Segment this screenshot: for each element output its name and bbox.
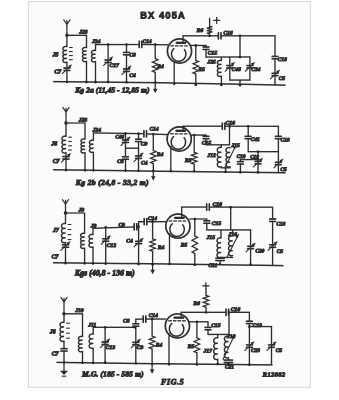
grid wire band3 right bbox=[147, 221, 166, 223]
svg-text:R5: R5 bbox=[180, 242, 188, 248]
junction band2 n3 bbox=[228, 125, 231, 128]
grid wire band3 left bbox=[139, 221, 144, 223]
junction band2 n17 bbox=[257, 158, 260, 161]
trimmer C7 band1 bbox=[54, 65, 71, 75]
svg-text:C15: C15 bbox=[211, 323, 221, 329]
jumper band2 bbox=[126, 147, 139, 149]
svg-text:C7: C7 bbox=[53, 159, 61, 165]
wire C9-C4 band2 bbox=[138, 142, 140, 156]
junction band2 n0 bbox=[124, 132, 127, 135]
wire C9 to rail band4 bbox=[135, 345, 137, 364]
wire C4 to rail band3 bbox=[138, 244, 140, 264]
svg-text:C14: C14 bbox=[150, 126, 159, 132]
junction band1 n2 bbox=[154, 43, 157, 46]
variable capacitor C13 band4 bbox=[101, 339, 116, 351]
wire C8 to rail band2 bbox=[125, 159, 127, 170]
wire C9 column band2 bbox=[138, 134, 140, 139]
junction band2 n15 bbox=[239, 171, 242, 174]
variable capacitor C9 band4 bbox=[131, 339, 143, 351]
wire C8-C4 band1 bbox=[126, 55, 128, 69]
wire C18 to bar band2 bbox=[277, 139, 279, 162]
wire J23 band1 bbox=[67, 34, 87, 36]
arrow below R4 band2 bbox=[151, 171, 156, 181]
svg-text:C46: C46 bbox=[232, 67, 241, 73]
junction band3 n8 bbox=[104, 262, 107, 265]
capacitor C14 band4 bbox=[143, 313, 158, 322]
wire C13 column band4 bbox=[104, 327, 106, 341]
screen wire band3 bbox=[190, 218, 207, 220]
triode U1 band3 bbox=[166, 214, 190, 238]
svg-text:FIG.5: FIG.5 bbox=[160, 378, 184, 387]
arrow J18 band4 bbox=[223, 335, 235, 360]
triode U1 band1 bbox=[167, 39, 191, 63]
svg-text:C21: C21 bbox=[208, 263, 217, 269]
variable capacitor C4 band1 bbox=[122, 66, 136, 79]
antenna band3 bbox=[62, 200, 68, 215]
junction band2 n7 bbox=[84, 169, 87, 172]
grid wire band4 left bbox=[136, 318, 143, 320]
stub C21 band4 bbox=[227, 358, 229, 360]
junction band3 n13 bbox=[219, 263, 222, 266]
svg-text:J23: J23 bbox=[78, 29, 88, 35]
junction band3 n0 bbox=[104, 226, 107, 229]
svg-text:R5: R5 bbox=[197, 67, 205, 73]
junction band2 n14 bbox=[224, 170, 227, 173]
wire C16 to corner band3 bbox=[210, 207, 273, 219]
capacitor C14 band3 bbox=[144, 216, 157, 225]
capacitor C41 band2 bbox=[245, 136, 260, 143]
cathode lead band3 bbox=[169, 234, 171, 264]
svg-text:C5: C5 bbox=[276, 348, 283, 354]
wire C41 top band2 bbox=[247, 126, 249, 136]
svg-text:C4: C4 bbox=[141, 161, 148, 167]
tank busbar band2 bbox=[206, 144, 230, 146]
coil sec band3 bbox=[81, 213, 85, 263]
svg-text:C10: C10 bbox=[237, 154, 246, 160]
junction band4 n1 bbox=[134, 326, 137, 329]
capacitor C16 band3 bbox=[207, 202, 222, 210]
plate wire band2 bbox=[183, 125, 222, 127]
antenna band2 bbox=[63, 108, 69, 125]
svg-text:C24: C24 bbox=[251, 67, 260, 73]
junction band2 n1 bbox=[137, 132, 140, 135]
wire C15 to busbar band2 bbox=[205, 139, 207, 145]
junction band3 n1 bbox=[137, 225, 140, 228]
tank ground stub band1 bbox=[239, 80, 241, 85]
variable capacitor C12 band3 bbox=[101, 236, 116, 249]
wire C46 bottom band1 bbox=[229, 68, 231, 80]
junction band4 n7 bbox=[81, 361, 84, 364]
junction band2 n2 bbox=[152, 133, 155, 136]
plate lead band1 bbox=[182, 36, 184, 41]
svg-text:C9: C9 bbox=[137, 345, 144, 351]
arrowhead J16 band3 bbox=[235, 234, 238, 238]
wire C17 to rail band1 bbox=[107, 63, 109, 82]
junction band2 n5 bbox=[193, 134, 196, 137]
arrow below R4 band4 bbox=[150, 364, 155, 374]
svg-text:R4: R4 bbox=[156, 152, 164, 158]
junction band1 n11 bbox=[125, 81, 128, 84]
coil J6 bbox=[50, 123, 71, 156]
svg-text:C5: C5 bbox=[277, 249, 284, 255]
svg-text:J12: J12 bbox=[206, 153, 216, 159]
svg-text:Kgs (40,8 - 136 m): Kgs (40,8 - 136 m) bbox=[74, 269, 135, 278]
wire C8 up band4 bbox=[135, 319, 137, 323]
tank busbar band1 bbox=[206, 56, 250, 58]
junction band1 n1 bbox=[125, 43, 128, 46]
capacitor C9 band2 bbox=[136, 139, 148, 147]
grid wire band2 left bbox=[93, 132, 143, 135]
jumper C10 C19 band2 bbox=[240, 159, 258, 161]
trimmer C46 band2 bbox=[115, 134, 130, 145]
grid wire band2 right bbox=[147, 133, 167, 136]
svg-text:C18: C18 bbox=[278, 57, 287, 63]
wire C24 top band1 bbox=[249, 57, 251, 65]
coil sec band4 bbox=[78, 314, 82, 363]
coil J15 band2 bbox=[226, 143, 240, 167]
tank coils bottom bar band3 bbox=[221, 256, 233, 258]
triode U1 band4 bbox=[165, 314, 189, 338]
svg-text:R4: R4 bbox=[157, 245, 165, 251]
svg-text:R5: R5 bbox=[184, 158, 192, 164]
junction band1 n5 bbox=[194, 44, 197, 47]
junction band1 n10 bbox=[107, 81, 110, 84]
cathode lead band2 bbox=[170, 147, 172, 171]
wire C20 top band3 bbox=[250, 230, 252, 246]
junction band4 n10 bbox=[134, 362, 137, 365]
tank ground stub band2 bbox=[225, 168, 227, 172]
wire C8-C9 band4 bbox=[135, 327, 137, 342]
svg-text:J17: J17 bbox=[203, 349, 213, 355]
junction band4 n8 bbox=[92, 362, 95, 365]
junction band1 n13 bbox=[173, 82, 176, 85]
svg-text:C18: C18 bbox=[281, 137, 290, 143]
svg-text:BX 405A: BX 405A bbox=[140, 10, 186, 20]
svg-text:C9: C9 bbox=[141, 142, 148, 148]
junction band4 n15 bbox=[227, 363, 230, 366]
wire C12 column band3 bbox=[105, 227, 107, 238]
junction band3 n11 bbox=[168, 263, 171, 266]
coil J9 band3 bbox=[89, 224, 97, 264]
svg-text:C8: C8 bbox=[123, 318, 130, 324]
junction band2 n11 bbox=[152, 170, 155, 173]
junction band1 n15 bbox=[220, 84, 223, 87]
junction band4 n2 bbox=[151, 318, 154, 321]
antenna band1 bbox=[64, 20, 70, 37]
drop wire band1 bbox=[239, 36, 241, 57]
trimmer C17 band1 bbox=[104, 57, 120, 69]
plate lead band2 bbox=[182, 126, 184, 130]
capacitor C16 band2 bbox=[222, 120, 235, 129]
svg-text:C21: C21 bbox=[225, 364, 234, 370]
junction band3 n10 bbox=[151, 263, 154, 266]
svg-text:R6: R6 bbox=[192, 301, 200, 307]
resistor R5 band1 bbox=[193, 45, 205, 84]
capacitor C15 band4 bbox=[205, 323, 221, 330]
variable capacitor C20 band3 bbox=[246, 243, 265, 254]
svg-text:C12: C12 bbox=[107, 243, 117, 249]
junction band2 n13 bbox=[193, 170, 196, 173]
junction band2 n9 bbox=[124, 169, 127, 172]
svg-text:C4: C4 bbox=[129, 73, 136, 79]
wire C5 to rail band2 bbox=[277, 165, 279, 173]
trimmer C21 band3 bbox=[208, 258, 224, 269]
plate wire band4 bbox=[181, 311, 225, 313]
junction band2 n16 bbox=[257, 171, 260, 174]
plate lead band3 bbox=[181, 207, 183, 217]
capacitor C10 band2 bbox=[237, 154, 246, 164]
tank coils bottom bar band2 bbox=[221, 167, 230, 168]
wire tank band4 bbox=[93, 326, 135, 328]
wire C17 column band1 bbox=[107, 45, 109, 60]
wire C13 to rail band4 bbox=[104, 344, 106, 362]
capacitor C8 band1 bbox=[124, 52, 136, 58]
capacitor C8 band2 bbox=[117, 157, 128, 165]
wire C23 to rail band4 bbox=[248, 347, 250, 364]
svg-text:J23: J23 bbox=[78, 117, 88, 123]
capacitor C8 band4 bbox=[123, 318, 139, 326]
svg-text:J25: J25 bbox=[206, 60, 216, 66]
junction band1 n8 bbox=[85, 81, 88, 84]
screen wire band1 bbox=[192, 44, 206, 46]
capacitor C15 band3 bbox=[204, 221, 221, 227]
variable capacitor C24 band1 bbox=[245, 63, 260, 73]
wire C10 to rail band2 bbox=[239, 164, 241, 172]
trimmer C46 band1 bbox=[225, 63, 241, 73]
tank bottom bar band1 bbox=[230, 79, 250, 81]
wire C20 to rail band3 bbox=[250, 249, 252, 265]
junction band4 n5 bbox=[196, 320, 199, 323]
svg-text:J8: J8 bbox=[49, 330, 56, 336]
svg-text:C17: C17 bbox=[110, 63, 120, 69]
svg-text:J16: J16 bbox=[227, 232, 237, 238]
svg-text:R6: R6 bbox=[196, 28, 204, 34]
coil J12 bbox=[206, 145, 221, 167]
wire C15 top band1 bbox=[205, 45, 207, 46]
ground rail band2 bbox=[54, 170, 285, 173]
svg-text:C8: C8 bbox=[117, 159, 124, 165]
ground bar band4 bbox=[62, 375, 66, 377]
wire C4 to rail band1 bbox=[126, 72, 128, 83]
junction band1 n14 bbox=[194, 83, 197, 86]
wire to C9 band3 bbox=[93, 227, 134, 228]
capacitor C18 band4 bbox=[247, 321, 263, 329]
coil J25 bbox=[206, 57, 221, 85]
resistor R5 band4 bbox=[187, 322, 200, 365]
junction band1 n9 bbox=[94, 81, 97, 84]
variable capacitor C5 band3 bbox=[268, 242, 283, 255]
svg-text:C7: C7 bbox=[54, 69, 62, 75]
svg-text:J5: J5 bbox=[52, 53, 59, 59]
coil J16 bbox=[227, 230, 237, 256]
junction band4 n11 bbox=[151, 363, 154, 366]
wire C5 to rail band3 bbox=[272, 247, 274, 265]
wire link band3 bbox=[66, 212, 85, 214]
svg-text:R4: R4 bbox=[156, 64, 164, 70]
svg-text:R5: R5 bbox=[187, 344, 195, 350]
cathode lead band1 bbox=[173, 62, 175, 84]
screen wire band2 bbox=[191, 134, 206, 136]
coil J11 bbox=[87, 323, 96, 363]
junction band2 n8 bbox=[92, 169, 95, 172]
svg-text:C23: C23 bbox=[251, 348, 260, 354]
svg-text:C9: C9 bbox=[119, 223, 126, 229]
capacitor C15 band1 bbox=[203, 47, 217, 56]
capacitor C15 band2 bbox=[202, 136, 212, 146]
rect bottom bar band2 bbox=[248, 151, 278, 153]
wire C15 top band2 bbox=[205, 134, 207, 137]
svg-text:R4: R4 bbox=[155, 342, 163, 348]
coil J8 band4 bbox=[49, 314, 70, 349]
stub C21 band3 bbox=[220, 256, 221, 259]
wire J23 band2 bbox=[66, 122, 85, 124]
resistor R6 band1 bbox=[196, 18, 213, 36]
svg-text:C46: C46 bbox=[115, 134, 124, 140]
junction band4 n13 bbox=[196, 363, 199, 366]
junction band3 n4 bbox=[193, 218, 196, 221]
wire C21 to rail band3 bbox=[219, 261, 221, 265]
wire C7 to rail band2 bbox=[65, 159, 67, 170]
coil J18 bbox=[224, 334, 235, 358]
capacitor C21 band4 bbox=[224, 360, 234, 370]
wire C12 to rail band3 bbox=[105, 241, 107, 263]
capacitor C16 band1 bbox=[218, 30, 233, 39]
junction band1 n3 bbox=[208, 34, 211, 37]
resistor R5 band3 bbox=[180, 219, 198, 265]
arrow below R4 band3 bbox=[150, 264, 155, 274]
capacitor C18 band1 bbox=[272, 56, 287, 63]
wire C41 bottom band2 bbox=[247, 139, 249, 152]
wire J10 band4 bbox=[64, 313, 83, 315]
junction band1 n6 bbox=[239, 56, 242, 59]
wire C7 to rail band1 bbox=[66, 71, 68, 82]
variable capacitor C5 band4 bbox=[267, 342, 282, 354]
svg-text:C7: C7 bbox=[52, 352, 60, 358]
wire C15 top band3 bbox=[206, 219, 208, 220]
grid wire band4 right bbox=[146, 318, 165, 320]
wire C5 to rail band4 bbox=[271, 347, 273, 365]
junction band3 n9 bbox=[137, 263, 140, 266]
grid wire band1 right bbox=[142, 44, 167, 46]
wire C15 to busbar band3 bbox=[206, 223, 208, 230]
resistor R4 band4 bbox=[149, 319, 162, 364]
junction band4 n0 bbox=[104, 326, 107, 329]
junction band3 n2 bbox=[151, 220, 154, 223]
wire C18-C5 band3 bbox=[272, 221, 274, 244]
jumper band4 bbox=[249, 326, 271, 328]
wire J17 bottom band4 bbox=[217, 359, 219, 364]
wire C18-C23 band4 bbox=[248, 324, 250, 345]
svg-text:C18: C18 bbox=[276, 222, 285, 228]
coil J17 bbox=[203, 334, 218, 359]
capacitor C7 band4 bbox=[52, 349, 67, 358]
coil J24 band2 bbox=[89, 127, 101, 170]
wire C9 to junction band3 bbox=[137, 226, 138, 228]
coil J24 bbox=[91, 39, 101, 82]
triode U1 band2 bbox=[167, 127, 191, 151]
junction band1 n7 bbox=[66, 80, 69, 83]
svg-text:Kg 2b (24,8 - 33,2 m): Kg 2b (24,8 - 33,2 m) bbox=[75, 178, 149, 187]
svg-text:J10: J10 bbox=[74, 308, 84, 314]
svg-text:J6: J6 bbox=[50, 142, 57, 148]
capacitor C18 band2 bbox=[275, 136, 289, 143]
junction band4 n17 bbox=[248, 363, 251, 366]
wire C5 top band4 bbox=[271, 327, 273, 345]
variable capacitor C19 band2 bbox=[250, 154, 262, 167]
drop wire band2 bbox=[229, 126, 231, 145]
junction band1 n12 bbox=[154, 81, 157, 84]
svg-text:C41: C41 bbox=[251, 137, 260, 143]
junction band1 n4 bbox=[239, 34, 242, 37]
tank busbar band3 bbox=[207, 229, 251, 231]
svg-text:C8: C8 bbox=[129, 53, 136, 59]
plus supply band1 bbox=[214, 17, 220, 23]
wire C19 to rail band2 bbox=[257, 164, 259, 173]
trimmer C7 band3 bbox=[52, 242, 70, 261]
svg-text:J15: J15 bbox=[206, 235, 216, 241]
wire C16 to corner band4 bbox=[229, 312, 249, 321]
junction band3 n6 bbox=[83, 262, 86, 265]
wire C18-C5 band1 bbox=[274, 59, 276, 73]
junction band4 n4 bbox=[228, 311, 231, 314]
junction band4 n16 bbox=[248, 325, 251, 328]
wire C21 to rail band4 bbox=[227, 363, 229, 365]
wire C46 column band2 bbox=[125, 133, 127, 139]
wire C16 to corner band2 bbox=[226, 126, 279, 136]
wire C7 to rail band3 bbox=[65, 247, 67, 263]
resistor R4 band2 bbox=[151, 134, 164, 171]
variable capacitor C4 band3 bbox=[126, 238, 143, 247]
drop wire band3 bbox=[230, 207, 232, 230]
stub C19 band2 bbox=[257, 152, 259, 160]
svg-text:C7: C7 bbox=[52, 254, 60, 260]
coil sec band1 bbox=[82, 36, 86, 83]
wire C8 column band1 bbox=[126, 45, 128, 53]
wire C10 top band2 bbox=[239, 160, 241, 162]
junction band1 n0 bbox=[107, 43, 110, 46]
wire C24 bottom band1 bbox=[249, 68, 251, 80]
svg-text:C4: C4 bbox=[126, 239, 133, 245]
capacitor C16 band4 bbox=[226, 307, 240, 315]
coil J7 bbox=[52, 213, 71, 244]
plus supply band4 bbox=[203, 283, 209, 289]
wire C7 to rail band4 bbox=[63, 351, 65, 362]
capacitor C9 band3 bbox=[119, 223, 137, 230]
wire C4 column band3 bbox=[138, 227, 140, 241]
junction band3 n14 bbox=[249, 263, 252, 266]
junction band2 n6 bbox=[65, 169, 68, 172]
ground rail band4 bbox=[57, 362, 272, 365]
plate lead band4 bbox=[180, 312, 182, 317]
junction band2 n10 bbox=[137, 169, 140, 172]
variable capacitor C23 band4 bbox=[245, 342, 260, 354]
junction band4 n6 bbox=[63, 361, 66, 364]
variable capacitor C5 band1 bbox=[270, 70, 285, 82]
svg-text:C20: C20 bbox=[255, 249, 264, 255]
junction band4 n14 bbox=[216, 363, 219, 366]
junction band3 n7 bbox=[92, 262, 95, 265]
svg-text:C13: C13 bbox=[106, 345, 116, 351]
junction band3 n3 bbox=[229, 206, 232, 209]
junction band2 n12 bbox=[169, 170, 172, 173]
svg-text:R12882: R12882 bbox=[262, 371, 286, 378]
svg-text:J7: J7 bbox=[52, 228, 60, 234]
resistor R6 band4 bbox=[192, 289, 208, 313]
variable capacitor C5 band2 bbox=[274, 159, 287, 173]
junction band4 n9 bbox=[104, 361, 107, 364]
tank busbar band4 bbox=[208, 333, 229, 335]
resistor R4 band3 bbox=[150, 222, 165, 265]
